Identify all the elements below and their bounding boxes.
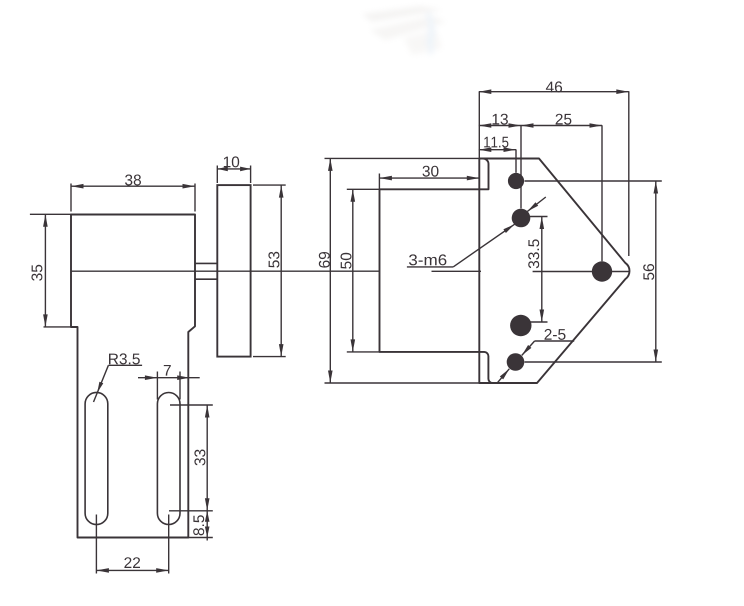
dimension 46 <box>479 81 629 256</box>
right view boss outline <box>380 159 493 383</box>
hole upper m6 <box>512 209 531 228</box>
label 2-5 with leaders <box>497 329 574 383</box>
dimension 10 <box>217 156 250 183</box>
left slot (obround) <box>85 392 108 524</box>
shaft between bracket and disc <box>195 263 217 279</box>
label 3-m6 with leaders <box>407 197 546 267</box>
dimension 35 <box>30 214 78 327</box>
dimension 53 <box>253 185 286 357</box>
dimension 50 <box>341 189 380 352</box>
dimension 11.5 <box>479 137 516 173</box>
dimension 30 <box>379 166 479 189</box>
dimension 8.5 <box>188 511 213 541</box>
dimension 25 <box>521 114 602 262</box>
hole top (dia 5) <box>508 173 524 189</box>
left view bracket outline <box>71 215 195 538</box>
dimension 7 <box>138 365 200 400</box>
horizontal center line right view <box>432 270 630 272</box>
right view pentagon plate outline <box>479 159 629 384</box>
hole bottom (dia 5) <box>507 353 525 371</box>
disc outline <box>217 185 250 357</box>
horizontal center line left view <box>71 270 380 272</box>
faint background smudge <box>362 6 446 56</box>
dimension 22 <box>96 515 168 574</box>
dimension 13 <box>479 114 521 209</box>
dimension 56 <box>525 181 662 362</box>
label R3.5 with leader <box>94 353 143 402</box>
hole right m6 <box>592 261 612 281</box>
dimension 69 <box>319 158 480 383</box>
extension line pentagon left edge <box>478 92 480 159</box>
hole lower m6 <box>510 315 531 336</box>
dimension 33.5 <box>525 217 548 323</box>
dimension 33 <box>169 405 213 511</box>
right slot (obround) <box>157 393 180 525</box>
dimension 38 <box>71 175 195 212</box>
